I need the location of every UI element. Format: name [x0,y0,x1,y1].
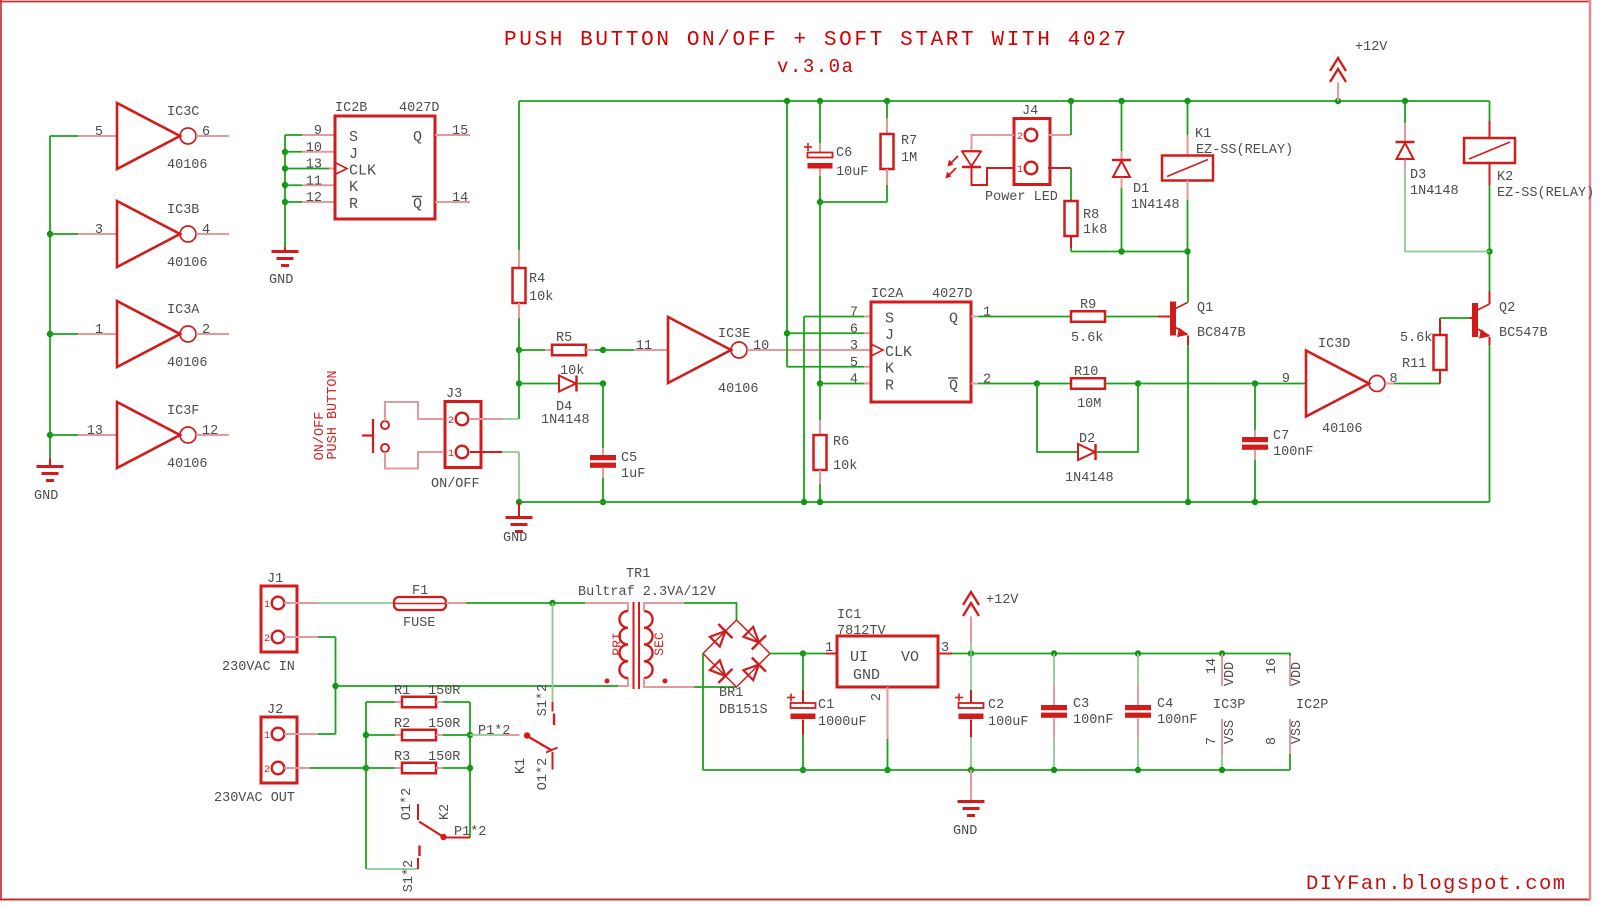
pin stub input IC3F [78,434,117,436]
inverter IC3A [117,301,180,367]
node junction R6/ground [817,499,823,505]
svg-text:1: 1 [448,449,454,460]
svg-text:6: 6 [202,125,210,140]
svg-text:7812TV: 7812TV [837,624,887,639]
node junction at inverter IC3F input [47,432,53,438]
svg-text:10: 10 [753,339,769,354]
transformer TR1 secondary winding [644,611,653,678]
relay contact K1 pivot [524,732,530,738]
svg-text:2: 2 [264,634,270,645]
svg-text:9: 9 [314,124,322,139]
resistor R11 [1434,335,1447,370]
node junction C3 top [1051,650,1057,656]
pin stub IC1 input [826,653,837,655]
push button actuator [372,419,374,453]
node junction IC2B input [282,165,288,171]
node junction Q1 emitter/ground [1185,499,1191,505]
svg-text:Q1: Q1 [1197,301,1213,316]
wire D3 bottom run to K2 node [1405,170,1490,252]
pin stub input IC3A [78,333,117,335]
wire R1 left leg [366,701,395,703]
resistor R10 [1071,378,1105,389]
svg-text:J: J [885,327,894,344]
flip-flop IC2A box [871,302,971,402]
svg-text:5.6k: 5.6k [1071,331,1103,346]
svg-text:BC547B: BC547B [1499,326,1548,341]
wire node to C7 [1254,384,1256,431]
wire IC2B pin 11 net segment [285,184,302,186]
bridge diode top-left [710,631,726,647]
relay K2 [1464,138,1515,163]
node junction R2 right [467,732,473,738]
svg-text:4: 4 [850,373,858,388]
svg-text:40106: 40106 [167,457,208,472]
node junction at inverter IC3A input [47,331,53,337]
pin stub R7 top [886,118,888,134]
pin stub +12V top [1337,83,1339,102]
svg-text:7: 7 [1205,737,1220,745]
node junction IC2B input [282,182,288,188]
svg-text:J: J [349,146,358,163]
svg-text:2: 2 [448,416,454,427]
wire bottom ground rail [703,769,1290,771]
svg-text:5: 5 [850,356,858,371]
svg-text:O1*2: O1*2 [536,758,551,790]
pin stub J4 pin2 left to LED [972,135,1015,151]
wire node to C1 [802,654,804,691]
svg-text:230VAC IN: 230VAC IN [222,660,295,675]
pin stub IC3P VDD pin 14 [1221,654,1223,687]
svg-text:FUSE: FUSE [403,616,435,631]
svg-text:S: S [885,311,894,328]
wire +12V bus down to IC2A J and K pins [786,101,788,367]
pin stub IC3P VSS pin 7 [1221,719,1223,754]
transformer TR1 primary winding [619,611,628,678]
wire vertical R5 node to J3 pin2 [518,350,520,419]
svg-text:GND: GND [953,824,977,839]
svg-text:2: 2 [1017,132,1023,143]
node junction J pin [784,330,790,336]
ground symbol left column [49,458,51,466]
svg-text:GND: GND [853,667,880,684]
svg-text:DB151S: DB151S [719,703,768,718]
TR1 polarity dot secondary [663,679,668,684]
pin stub IC2B pin 11 [302,184,335,186]
inverter IC3C [117,103,180,169]
resistor R7 [881,134,894,169]
svg-text:8: 8 [1265,737,1280,745]
wire J2 pin1 to neutral corner [318,733,336,735]
wire main ground bus [519,501,1490,503]
svg-text:GND: GND [503,531,527,546]
diode D2 [1078,444,1095,460]
pin stub output IC3A [196,333,229,335]
wire IC2B pin 12 net segment [285,201,302,203]
wire Q to R9 [978,316,1071,318]
wire bridge minus to ground rail [702,654,704,771]
svg-text:J1: J1 [267,572,283,587]
node junction C7/ground [1252,499,1258,505]
wire R4 bottom to node [518,318,520,350]
pin stub IC1 ground [887,687,889,739]
transistor Q2 [1472,303,1478,337]
pin stub C4 top [1137,686,1139,705]
svg-text:R2: R2 [394,717,410,732]
relay contact S1b lever [418,846,420,857]
wire J3 pin2 to R4/R5 net [502,418,519,420]
node junction R3 right [467,765,473,771]
pin stub ground symbol main [518,502,520,517]
wire D2 right leg [1096,384,1138,453]
wire IC2B pin 13 net segment [285,168,329,170]
svg-text:C7: C7 [1273,429,1289,444]
wire R7 bottom corner [886,185,888,202]
svg-text:S1*2: S1*2 [536,684,551,716]
wire Q2 collector up to relay K2 [1489,291,1491,304]
pin stub IC2B pin 15 Q [435,134,470,136]
svg-text:R6: R6 [833,435,849,450]
wire input net to IC3A [50,333,78,335]
capacitor C2 [955,697,963,699]
node junction on +12V bus [1402,98,1408,104]
pin stub IC2B pin 9 [302,134,335,136]
svg-text:SEC: SEC [652,632,667,656]
node junction on +12V bus [884,98,890,104]
resistor R6 [814,435,827,470]
svg-text:J3: J3 [446,387,462,402]
svg-text:P1*2: P1*2 [454,825,486,840]
svg-text:9: 9 [1282,372,1290,387]
wire C6 bottom to node [819,176,821,202]
svg-text:R: R [885,378,894,395]
node junction S/ground [801,499,807,505]
svg-text:UI: UI [850,649,868,666]
relay contact S1 lever [553,714,555,726]
wire IC1 output to +12V node [952,653,971,655]
relay contact S1 pin [552,702,554,712]
wire IC2A pin 7 net [804,316,864,318]
wire +12V rail right [971,654,1290,657]
wire bus to C6 [819,101,821,143]
wire IC2B pin 9 net segment [285,134,302,136]
svg-text:S: S [349,129,358,146]
svg-text:Q: Q [949,311,958,328]
svg-text:IC3P: IC3P [1213,698,1245,713]
node junction IC2B input [282,149,288,155]
svg-text:2: 2 [264,765,270,776]
svg-text:R4: R4 [529,272,545,287]
wire R6 bottom to ground bus [819,484,821,502]
svg-text:1M: 1M [901,151,917,166]
wire IC2A S pin to ground bus [803,317,805,503]
svg-text:K2: K2 [438,804,453,820]
svg-text:IC3A: IC3A [167,303,200,318]
svg-text:VDD: VDD [1290,662,1305,686]
pin stub IC2B pin 10 [302,151,335,153]
svg-text:D2: D2 [1079,432,1095,447]
wire J3 pin1 down to ground bus [518,452,520,502]
pin stub IC2B pin 13 [329,168,335,170]
inverter IC3D [1306,351,1369,417]
wire D4 cathode to node [578,383,604,385]
pin stub D3 top [1404,123,1406,142]
svg-text:40106: 40106 [167,356,208,371]
pin stub output IC3B [196,233,229,235]
svg-text:150R: 150R [428,750,460,765]
push button symbol contacts [381,421,389,429]
svg-text:4: 4 [202,223,210,238]
power symbol +12V output [963,592,979,605]
pin stub J2 pin2 [284,767,310,769]
node junction D4/C5 [600,380,606,386]
inverter IC3E [668,317,731,383]
fuse F1 [394,597,446,610]
svg-text:1k8: 1k8 [1083,223,1107,238]
wire node to R10 [1037,383,1071,385]
diode D4 [559,376,576,392]
node junction C4 top [1135,650,1141,656]
wire IC2P VSS to rail corner [1289,754,1291,770]
inverter IC3B [117,201,180,267]
pin stub R5 right [586,349,595,351]
svg-text:Q: Q [949,378,958,395]
node junction on +12V bus [1335,98,1341,104]
wire R10 right to node [1105,383,1138,385]
svg-text:VSS: VSS [1290,720,1305,744]
pin stub IC2A pin 6 [864,332,871,334]
node junction D4 left [516,380,522,386]
pin stub TR1 secondary top [644,603,684,611]
pin stub C1 top [802,690,804,703]
svg-text:10k: 10k [529,290,553,305]
svg-text:100nF: 100nF [1273,445,1314,460]
wire R2 right leg [436,734,443,736]
pin stub R11 bottom [1439,370,1441,384]
svg-text:5.6k: 5.6k [1400,331,1432,346]
svg-text:CLK: CLK [885,344,912,361]
wire node to IC1 input [803,653,826,655]
svg-text:D3: D3 [1410,168,1426,183]
wire F1 node down to relay contact S1 [552,603,554,702]
node junction R2 left [363,732,369,738]
wire R11 top to Q2 base [1440,317,1469,319]
wire bus to R4 [518,101,520,250]
wire soft-start right vertical [469,702,471,838]
svg-text:GND: GND [269,273,293,288]
capacitor C5 [590,455,616,460]
wire IC1 ground to rail [887,739,889,770]
wire K1 bottom to node [1187,200,1189,252]
svg-text:+12V: +12V [986,593,1019,608]
svg-text:1: 1 [983,306,991,321]
svg-text:R9: R9 [1080,298,1096,313]
wire input net to IC3B [50,233,78,235]
resistor R5 [552,345,586,356]
node junction IC1 out/+12V [968,650,974,656]
capacitor C7 [1242,437,1268,442]
bridge diode bottom-right [743,665,759,681]
wire F1 to node [466,602,553,604]
wire neutral to transformer primary bottom [336,685,619,687]
wire left column vertical net [49,136,51,458]
svg-text:IC3B: IC3B [167,203,199,218]
pin stub K2 bottom [1489,164,1491,186]
wire IC2A pin 6 net [787,332,864,334]
pin stub TR1 primary bottom [618,678,628,686]
svg-text:13: 13 [306,158,322,173]
node junction F1/S1 contact [549,600,555,606]
wire R2 left leg [366,734,395,736]
svg-text:O1*2: O1*2 [400,788,415,820]
svg-text:1N4148: 1N4148 [1410,184,1459,199]
wire node to C5 [602,384,604,449]
pin stub R4 top [518,250,520,268]
ground symbol IC2B [272,250,299,253]
pin stub input IC3C [78,135,117,137]
pin stub R6 top [819,420,821,435]
LED arrows [950,156,958,164]
power symbol +12V top [1330,58,1346,71]
wire R8 bottom rail [1071,251,1188,253]
svg-text:DIYFan.blogspot.com: DIYFan.blogspot.com [1306,873,1565,896]
wire R node down to R6 [819,384,821,421]
resistor R2 [402,730,436,741]
node junction C4 bottom [1135,767,1141,773]
pin stub C2 bottom [970,720,972,738]
pin stub Q2 base [1469,317,1472,319]
wire +12V top bus [519,100,1490,102]
pin stub C5 bottom [602,468,604,479]
svg-text:D1: D1 [1133,182,1149,197]
svg-text:4027D: 4027D [399,101,440,116]
svg-text:R10: R10 [1074,365,1098,380]
pin stub IC2A pin 2 Qbar [971,383,978,385]
wire node to IC3D input [1138,383,1306,385]
svg-text:3: 3 [95,223,103,238]
wire J2 pin2 to R3 node [310,767,366,769]
pin stub C1 bottom [802,720,804,736]
svg-text:11: 11 [306,174,322,189]
pin stub C7 top [1254,430,1256,437]
pin stub C3 bottom [1053,718,1055,738]
wire node to D4 anode [519,383,559,385]
ground wire IC2B [284,247,286,252]
connector J1 box [261,586,297,652]
svg-text:3: 3 [850,339,858,354]
svg-text:Bultraf 2.3VA/12V: Bultraf 2.3VA/12V [578,585,717,600]
svg-text:40106: 40106 [167,256,208,271]
svg-text:EZ-SS(RELAY): EZ-SS(RELAY) [1196,143,1293,158]
svg-text:100nF: 100nF [1073,713,1114,728]
pin stub output IC3F [196,434,229,436]
wire soft-start left vertical [365,702,367,869]
svg-text:1: 1 [95,323,103,338]
node junction R10/D2 right [1135,380,1141,386]
transistor Q1 [1170,302,1176,336]
svg-text:230VAC OUT: 230VAC OUT [214,791,295,806]
wire C1 bottom to rail [802,735,804,770]
resistor R1 [402,697,436,708]
svg-text:5: 5 [95,125,103,140]
svg-text:100nF: 100nF [1157,713,1198,728]
svg-text:R: R [349,196,358,213]
node junction C1/rail [800,767,806,773]
pin stub C2 top [970,690,972,703]
wire TR1 secondary top to bridge [684,603,737,620]
svg-text:Q2: Q2 [1499,301,1515,316]
wire node down to IC2A R pin [819,202,821,384]
pin stub D1 bottom [1121,178,1123,189]
ground symbol main [506,516,533,519]
svg-text:12: 12 [202,424,218,439]
svg-text:VSS: VSS [1223,720,1238,744]
svg-text:C6: C6 [836,146,852,161]
wire C6 node to R7 bottom [820,201,887,203]
wire J3 pin1 to ground bus [502,451,519,453]
svg-text:EZ-SS(RELAY): EZ-SS(RELAY) [1497,186,1594,201]
relay contact K2 lever [419,822,442,837]
node junction neutral [332,683,338,689]
svg-text:J4: J4 [1022,104,1038,119]
svg-text:100uF: 100uF [988,715,1029,730]
svg-text:R8: R8 [1083,208,1099,223]
svg-text:C3: C3 [1073,697,1089,712]
node junction on +12V bus [817,98,823,104]
svg-text:1N4148: 1N4148 [541,413,590,428]
node junction K1/Q1 collector [1184,248,1190,254]
svg-text:14: 14 [452,191,468,206]
node junction IC3P VSS [1219,767,1225,773]
svg-text:1N4148: 1N4148 [1065,471,1114,486]
svg-text:K: K [885,361,894,378]
svg-text:C1: C1 [818,698,834,713]
svg-text:J2: J2 [267,703,283,718]
node junction C7 top [1252,380,1258,386]
node junction IC3P VDD [1219,650,1225,656]
IC2B clock wedge [335,163,347,175]
wire C3 bottom to rail [1053,737,1055,770]
pin stub C3 top [1053,686,1055,705]
wire bus to D3 [1404,101,1406,123]
wire J1 pin2 down to neutral node [335,637,337,734]
wire IC2A pin 5 net [787,366,864,368]
capacitor C6 [804,146,812,148]
svg-text:10k: 10k [833,459,857,474]
wire J1 pin1 to fuse F1 [318,602,394,604]
wire R3 right leg [436,767,443,769]
svg-text:IC2B: IC2B [335,101,367,116]
svg-text:R5: R5 [556,331,572,346]
svg-text:S1*2: S1*2 [402,860,417,892]
wire R5 right to node [595,349,603,351]
node junction R5/C5/IC3E [600,347,606,353]
svg-text:VDD: VDD [1223,662,1238,686]
svg-text:1N4148: 1N4148 [1131,198,1180,213]
pin stub D1 top [1121,151,1123,160]
wire IC2A pin 4 net [820,383,864,385]
pin stub K2 top [1489,121,1491,138]
svg-text:K: K [349,179,358,196]
wire bus down to J4 pin2 [1070,101,1072,135]
svg-text:K1: K1 [514,758,529,774]
svg-text:GND: GND [34,489,58,504]
svg-text:PUSH BUTTON ON/OFF + SOFT STAR: PUSH BUTTON ON/OFF + SOFT START WITH 402… [504,29,1126,52]
svg-text:v.3.0a: v.3.0a [777,56,853,78]
svg-text:6: 6 [850,322,858,337]
svg-text:BR1: BR1 [719,686,743,701]
node junction at inverter IC3B input [47,231,53,237]
wire R2 node to relay contact K1 [470,734,503,736]
